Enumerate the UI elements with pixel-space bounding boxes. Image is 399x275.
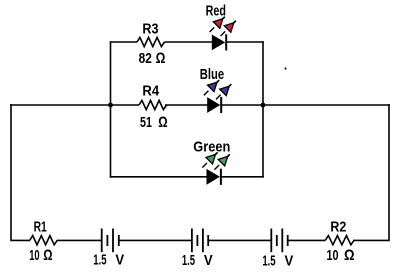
svg-text:V: V: [204, 252, 213, 269]
svg-text:R2: R2: [330, 219, 346, 236]
battery V1 (1.5 V) plates: [102, 229, 119, 253]
wire: left outer vertical: [10, 104, 12, 240]
svg-text:1.5: 1.5: [182, 252, 195, 269]
svg-text:V: V: [115, 251, 124, 268]
svg-text:Ω: Ω: [156, 50, 166, 67]
wire: right outer vertical: [388, 104, 390, 240]
svg-text:V: V: [285, 252, 294, 269]
resistor R2: [325, 236, 354, 245]
svg-text:1.5: 1.5: [93, 251, 106, 268]
wire: bottom rail segments: [10, 239, 390, 241]
svg-text:Ω: Ω: [158, 114, 167, 131]
LED D2 blue: emission arrow 2: [216, 84, 231, 99]
svg-text:R1: R1: [34, 219, 47, 236]
svg-text:10: 10: [29, 247, 39, 264]
battery V3 (1.5 V) plates: [271, 229, 287, 253]
resistor R3: [137, 37, 165, 46]
svg-text:Ω: Ω: [43, 247, 52, 264]
LED D2 blue: diode triangle and cathode bar: [207, 97, 221, 113]
svg-text:10: 10: [327, 247, 339, 264]
svg-text:R3: R3: [142, 21, 158, 38]
svg-text:R4: R4: [142, 83, 159, 100]
svg-text:Green: Green: [193, 139, 230, 156]
LED D3 green: diode triangle and cathode bar: [207, 169, 221, 185]
LED D2 blue: emission arrow 1: [204, 80, 219, 95]
LED D3 green: emission arrow 1: [202, 152, 217, 167]
node: junction right (box joins middle branch): [261, 103, 266, 108]
resistor R4: [139, 100, 167, 109]
wire: bottom branch of box (green LED row): [110, 176, 264, 178]
node: stray dot artifact: [284, 67, 286, 69]
svg-text:Blue: Blue: [200, 66, 224, 83]
LED D3 green: emission arrow 2: [215, 154, 230, 169]
wire: top branch (red LED row): [110, 41, 264, 43]
wire: parallel box left vertical: [110, 41, 112, 177]
svg-text:82: 82: [139, 50, 152, 67]
battery V2 (1.5 V) plates: [192, 229, 208, 253]
node: junction left (box joins middle branch): [108, 103, 113, 108]
wire: middle branch (blue LED row): [10, 104, 390, 106]
LED D1 red: emission arrow 1: [210, 17, 225, 32]
svg-text:51: 51: [140, 114, 152, 131]
LED D1 red: diode triangle and cathode bar: [212, 34, 226, 50]
svg-text:Red: Red: [206, 2, 226, 19]
LED D1 red: emission arrow 2: [221, 21, 236, 36]
wire: parallel box right vertical: [262, 41, 264, 177]
svg-text:Ω: Ω: [344, 247, 355, 264]
resistor R1: [30, 236, 57, 245]
svg-text:1.5: 1.5: [262, 252, 275, 269]
